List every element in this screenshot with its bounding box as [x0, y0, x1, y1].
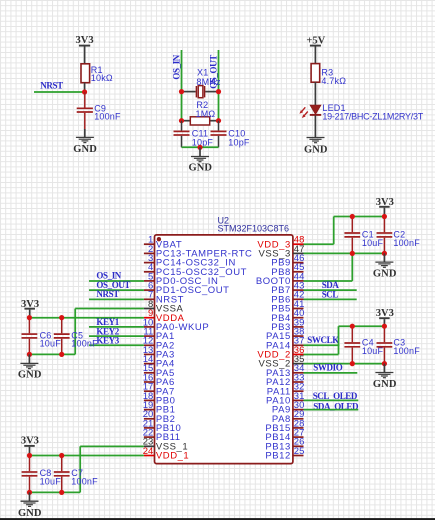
wire OS_IN to pin5 [89, 280, 144, 282]
pin 3 PC14-OSC32_IN (left) [144, 253, 236, 269]
wire SDA pin43 [304, 289, 357, 291]
power flag 3V3 (C6 C5) [21, 299, 39, 318]
pin 15 PA5 (left) [143, 363, 175, 379]
pin 40 PB4 (right) [271, 308, 304, 324]
wire KEY1 to pin10 [89, 326, 144, 328]
power flag 3V3 (C8 C7) [21, 435, 39, 455]
U2 reference label [218, 215, 230, 225]
wire BOOT0 pin44 [304, 253, 353, 281]
pin 6 PD1-OSC_OUT (left) [144, 281, 230, 297]
pin 32 PA11 (right) [267, 382, 305, 398]
wire VDDA pin9 [29, 317, 143, 319]
svg-text:25: 25 [294, 446, 305, 457]
junction C1 bottom [350, 251, 355, 256]
junction R2 right [216, 118, 221, 123]
R1 value 10k&#937; [91, 73, 113, 83]
wire SWDIO pin34 [304, 372, 358, 374]
ground under C9 [73, 137, 97, 155]
capacitor C2 [377, 217, 393, 254]
junction C6 top [27, 315, 32, 320]
svg-text:KEY3: KEY3 [96, 336, 119, 346]
pin 34 PA13 (right) [266, 363, 304, 379]
svg-text:1MΩ: 1MΩ [196, 109, 216, 119]
pin 42 PB6 (right) [271, 290, 304, 306]
ground under LED1 [304, 138, 328, 156]
net label SDA [322, 280, 340, 290]
wire OS_OUT to pin6 [89, 289, 144, 291]
svg-text:10uF: 10uF [40, 476, 62, 486]
svg-text:100nF: 100nF [71, 339, 98, 349]
net label KEY1 [96, 317, 119, 327]
pin 1 marker dot [157, 237, 161, 241]
pin 26 PB13 (right) [265, 437, 304, 453]
junction NRST node [82, 89, 87, 94]
pin 21 PB10 (left) [143, 418, 182, 434]
C3 reference label [393, 338, 405, 348]
pin 38 PA15 (right) [266, 327, 304, 343]
wire VSS_3 pin47 [304, 252, 385, 254]
net label OS_IN (rotated) [171, 54, 181, 79]
C10 value 10pF [228, 137, 250, 147]
pin 17 PA7 (left) [143, 382, 175, 398]
ground under C8 [18, 492, 42, 518]
U2 part number STM32F103C8T6 [218, 223, 290, 233]
svg-text:4.7kΩ: 4.7kΩ [321, 76, 346, 86]
C7 value 100nF [71, 476, 98, 486]
C9 value 100nF [94, 112, 121, 122]
net label SWDIO [313, 363, 342, 373]
pin 33 PA12 (right) [266, 372, 304, 388]
pin 12 PA2 (left) [143, 336, 175, 352]
wire KEY3 to pin12 [89, 344, 144, 346]
wire VDD_2 pin36 to 3V3 [304, 326, 385, 354]
pin 9 VDDA (left) [144, 308, 185, 324]
pin 5 PD0-OSC_IN (left) [144, 271, 219, 287]
net label OS_OUT (rotated) [208, 55, 218, 89]
svg-text:10kΩ: 10kΩ [91, 73, 113, 83]
wire NRST [34, 91, 85, 93]
C11 reference label [192, 128, 208, 138]
X1 value 8MHz [196, 77, 221, 87]
C4 value 10uF [362, 346, 384, 356]
power flag +5V [306, 35, 325, 63]
ground under C6 [18, 354, 42, 380]
svg-text:SWCLK: SWCLK [307, 335, 339, 345]
junction C8 bottom [27, 490, 32, 495]
svg-text:GND: GND [18, 508, 42, 519]
pin 7 NRST (left) [144, 290, 184, 306]
svg-text:GND: GND [373, 379, 397, 390]
pin 23 VSS_1 (left) [143, 437, 189, 453]
capacitor C11 [174, 121, 190, 148]
capacitor C10 [211, 121, 227, 148]
wire VDD_3 pin48 to 3V3 [304, 217, 385, 245]
pin 37 PA14 (right) [266, 336, 304, 352]
C2 reference label [393, 229, 405, 239]
pin 10 PA0-WKUP (left) [143, 317, 210, 333]
junction X1 left [179, 89, 184, 94]
wire VSSA pin8 [75, 309, 144, 355]
svg-text:GND: GND [188, 162, 212, 173]
junction C8 top [27, 453, 32, 458]
capacitor C4 [344, 326, 360, 363]
capacitor C5 [54, 318, 70, 355]
net label SWCLK [307, 335, 339, 345]
svg-text:SCL_OLED: SCL_OLED [313, 391, 358, 401]
pin 30 PA9 (right) [272, 400, 304, 416]
capacitor C8 [22, 456, 38, 493]
window bottom border [0, 518, 435, 520]
svg-text:100nF: 100nF [393, 238, 420, 248]
wire crystal bottom [182, 146, 219, 148]
R3 value 4.7k&#937; [321, 76, 346, 86]
pin 27 PB14 (right) [265, 428, 304, 444]
pin 16 PA6 (left) [143, 372, 175, 388]
C5 reference label [71, 331, 83, 341]
capacitor C1 [344, 217, 360, 254]
junction C2 top [382, 214, 387, 219]
wire R1 to node [84, 83, 86, 92]
junction C4 top [350, 324, 355, 329]
pin 18 PB0 (left) [143, 391, 176, 407]
svg-text:SCL: SCL [322, 290, 339, 300]
svg-text:OS_IN: OS_IN [171, 54, 181, 79]
pin 11 PA1 (left) [143, 327, 174, 343]
junction C1 top [350, 214, 355, 219]
junction C4 bottom [350, 361, 355, 366]
pin 29 PA8 (right) [272, 409, 304, 425]
svg-text:10pF: 10pF [192, 137, 214, 147]
power flag 3V3 (C1 C2) [376, 197, 394, 216]
svg-text:100nF: 100nF [94, 112, 121, 122]
pin 1 VBAT (left) [144, 235, 182, 251]
pin 13 PA3 (left) [143, 345, 175, 361]
pin 25 PB12 (right) [265, 446, 304, 462]
resistor R3 [311, 64, 320, 83]
junction C7 top [59, 453, 64, 458]
wire LED to ground [314, 116, 316, 138]
svg-text:10uF: 10uF [362, 238, 384, 248]
net label KEY3 [96, 336, 119, 346]
C4 reference label [362, 338, 374, 348]
svg-text:GND: GND [304, 144, 328, 155]
ground under crystal [188, 147, 212, 173]
wire NRST to pin7 [89, 298, 144, 300]
wire SWCLK pin37 [304, 344, 340, 346]
pin 8 VSSA (left) [144, 299, 184, 315]
svg-text:SWDIO: SWDIO [313, 363, 342, 373]
power flag 3V3 (C4 C3) [376, 308, 394, 326]
X1 reference label [197, 68, 208, 78]
svg-text:NRST: NRST [96, 289, 119, 299]
junction C3 bottom [382, 361, 387, 366]
svg-text:PB12: PB12 [265, 451, 290, 462]
svg-text:GND: GND [373, 269, 397, 280]
net label NRST (pull-up) [40, 81, 63, 91]
svg-text:3V3: 3V3 [76, 35, 94, 46]
wire OS_OUT vertical [218, 50, 220, 121]
crystal X1 [182, 86, 219, 98]
junction C3 top [382, 324, 387, 329]
junction C2 bottom [382, 251, 387, 256]
wire R3 to LED [314, 82, 316, 105]
pin 19 PB1 (left) [143, 400, 176, 416]
wire VSS_1 pin23 [80, 446, 144, 492]
svg-text:100nF: 100nF [71, 476, 98, 486]
pin 48 VDD_3 (right) [257, 235, 304, 251]
pin 28 PB15 (right) [265, 418, 304, 434]
C11 value 10pF [192, 137, 214, 147]
svg-text:GND: GND [18, 369, 42, 380]
C5 value 100nF [71, 339, 98, 349]
pin 14 PA4 (left) [143, 354, 175, 370]
svg-text:NRST: NRST [40, 81, 63, 91]
C1 reference label [362, 229, 374, 239]
pin 41 PB5 (right) [271, 299, 304, 315]
junction X1 right [216, 89, 221, 94]
wire KEY2 to pin11 [89, 335, 144, 337]
C2 value 100nF [393, 238, 420, 248]
capacitor C6 [22, 318, 38, 355]
pin 24 VDD_1 (left) [143, 446, 190, 462]
svg-text:3V3: 3V3 [21, 435, 39, 446]
net label SCL_OLED [313, 391, 358, 401]
LED LED1 [299, 105, 321, 118]
pin 4 PC15-OSC32_OUT (left) [144, 262, 247, 278]
svg-text:10pF: 10pF [228, 137, 250, 147]
pin 31 PA10 (right) [266, 391, 304, 407]
power flag 3V3 (R1 pull-up) [76, 35, 94, 64]
junction R2 left [179, 118, 184, 123]
pin 36 VDD_2 (right) [257, 345, 304, 361]
pin 35 VSS_2 (right) [258, 354, 304, 370]
svg-text:10uF: 10uF [40, 339, 62, 349]
net label OS_OUT (MCU) [96, 280, 130, 290]
net label KEY2 [96, 326, 119, 336]
LED1 reference label [322, 103, 345, 113]
wire SCL pin42 [304, 298, 357, 300]
C1 value 10uF [362, 238, 384, 248]
C10 reference label [228, 128, 245, 138]
C8 reference label [40, 468, 52, 478]
pin 22 PB11 (left) [143, 428, 181, 444]
capacitor C9 [77, 92, 93, 137]
pin 20 PB2 (left) [143, 409, 176, 425]
C6 value 10uF [40, 339, 62, 349]
LED1 part number 19-217/BHC-ZL1M2RY/3T [322, 112, 423, 122]
ground under C2 [373, 253, 397, 279]
capacitor C3 [377, 326, 393, 363]
junction C5 bottom [59, 352, 64, 357]
pin 39 PB3 (right) [271, 317, 304, 333]
svg-text:24: 24 [143, 446, 154, 457]
wire SDA_OLED pin30 [304, 409, 359, 411]
wire OS_IN vertical [181, 50, 183, 121]
svg-text:100nF: 100nF [393, 346, 420, 356]
wire VDD_1 pin24 [30, 455, 144, 457]
R3 reference label [321, 68, 333, 78]
wire gnd row (C8 C7) [30, 491, 81, 493]
pin 45 PB8 (right) [271, 262, 304, 278]
svg-text:19-217/BHC-ZL1M2RY/3T: 19-217/BHC-ZL1M2RY/3T [322, 112, 423, 122]
junction C7 bottom [59, 490, 64, 495]
net label NRST (MCU) [96, 289, 119, 299]
junction C5 top [59, 315, 64, 320]
C9 reference label [94, 104, 106, 114]
R1 reference label [91, 65, 103, 75]
C6 reference label [40, 331, 52, 341]
pin 47 VSS_3 (right) [258, 244, 304, 260]
junction C6 bottom [27, 352, 32, 357]
wire VSS_2 pin35 [304, 363, 385, 365]
svg-text:VDD_1: VDD_1 [156, 451, 189, 462]
svg-text:GND: GND [73, 144, 97, 155]
net label SCL [322, 290, 339, 300]
svg-text:STM32F103C8T6: STM32F103C8T6 [218, 223, 290, 233]
svg-text:8MHz: 8MHz [196, 77, 221, 87]
wire SCL_OLED pin31 [304, 399, 359, 401]
pin 44 BOOT0 (right) [256, 271, 305, 287]
wire gnd row (C6 C5) [29, 353, 75, 355]
resistor R2 [182, 117, 219, 125]
junction crystal gnd tap [197, 145, 202, 150]
pin 46 PB9 (right) [271, 253, 304, 269]
pin 2 PC13-TAMPER-RTC (left) [144, 244, 253, 260]
capacitor C7 [54, 456, 70, 493]
svg-text:KEY1: KEY1 [96, 317, 119, 327]
resistor R1 [81, 64, 90, 83]
C3 value 100nF [393, 346, 420, 356]
ground under C3 [373, 364, 397, 390]
C8 value 10uF [40, 476, 62, 486]
pin 43 PB7 (right) [271, 281, 304, 297]
net label SDA_OLED [313, 401, 359, 411]
R2 value 1M&#937; [196, 109, 216, 119]
R2 reference label [196, 100, 208, 110]
net label OS_IN (MCU) [96, 271, 121, 281]
op-amp U2 body (MCU STM32F103C8T6) [155, 235, 293, 464]
C7 reference label [71, 468, 83, 478]
